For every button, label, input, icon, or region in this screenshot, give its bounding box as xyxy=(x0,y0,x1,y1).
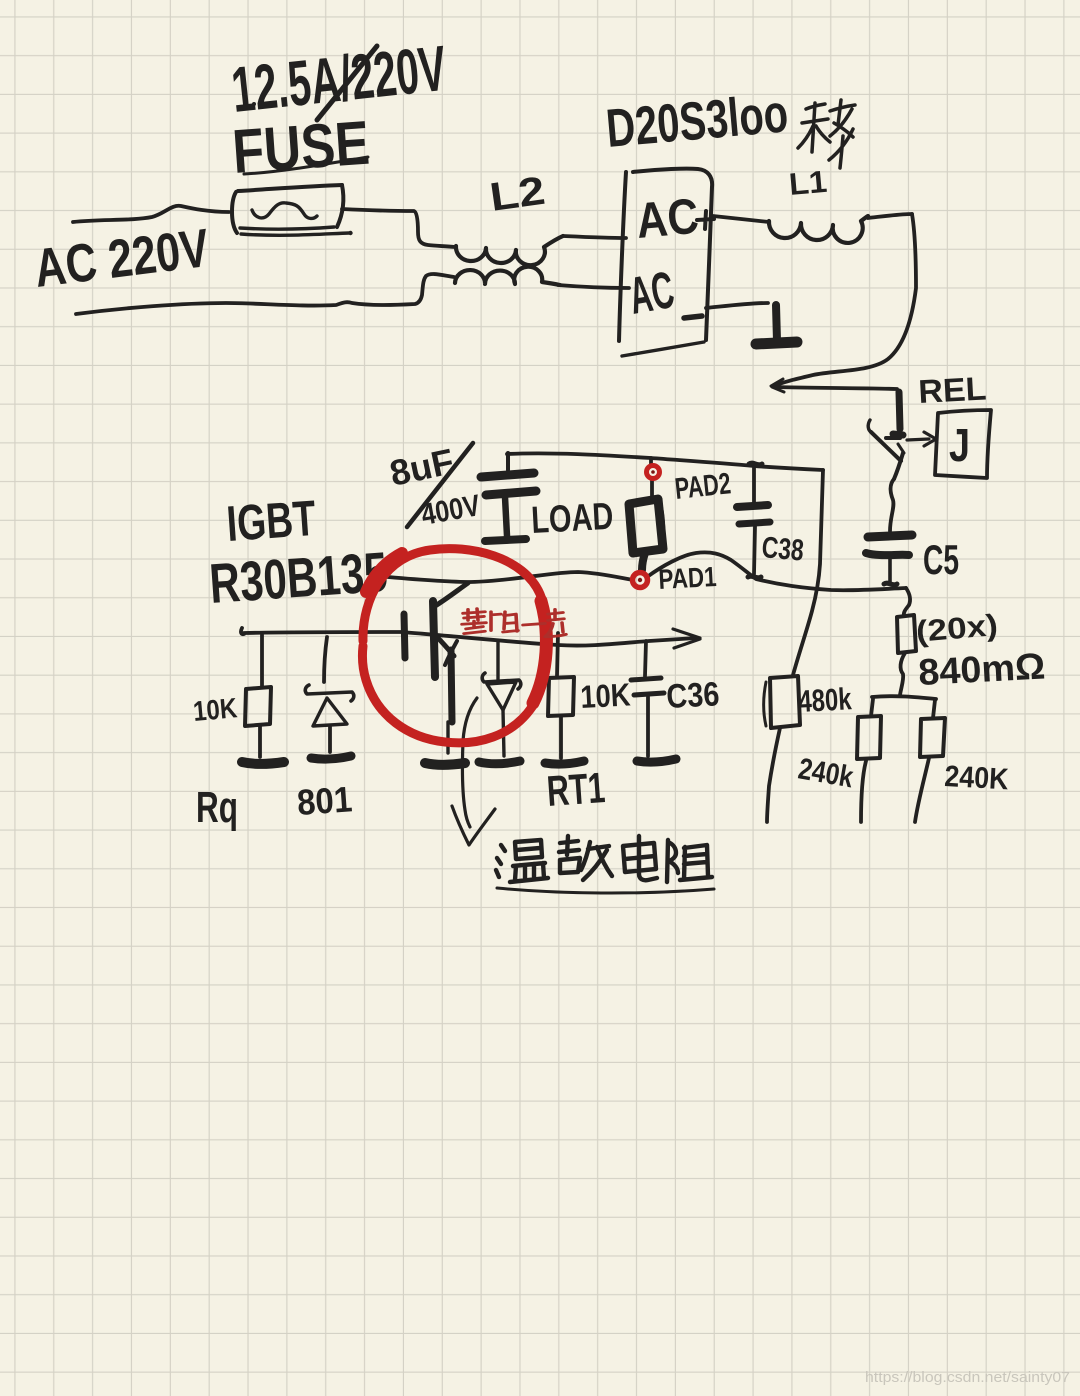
wire L2 top to bridge xyxy=(563,236,626,238)
wire AC line top-left xyxy=(73,206,229,222)
svg-text:LOAD: LOAD xyxy=(530,496,614,542)
fuse F1 xyxy=(232,185,353,235)
svg-text:https://blog.csdn.net/sainty07: https://blog.csdn.net/sainty07 xyxy=(865,1370,1070,1386)
capacitor C36 xyxy=(631,641,676,762)
svg-text:PAD1: PAD1 xyxy=(658,561,718,595)
diode at IGBT emitter xyxy=(479,641,521,764)
wire C5 junction down to 20x resistor xyxy=(904,588,910,616)
hanzi bridge character xyxy=(798,100,855,168)
wire AC+ to L1 xyxy=(713,216,769,222)
main mid wire (PAD1 rail) xyxy=(388,572,633,582)
ground at bridge AC- xyxy=(706,303,797,344)
bridge rectifier D20SB60 box xyxy=(619,169,712,356)
pad PAD2 lead xyxy=(651,458,652,499)
coil pad component (thick rectangle) xyxy=(629,499,663,570)
curved arrow to thermistor note xyxy=(462,698,477,827)
svg-text:RT1: RT1 xyxy=(545,764,606,816)
wire fuse to L2 xyxy=(342,209,455,247)
wire AC line bottom-left xyxy=(76,274,454,314)
svg-text:C36: C36 xyxy=(665,675,720,716)
relay fixed contact xyxy=(899,392,900,429)
svg-text:PAD2: PAD2 xyxy=(673,467,732,506)
svg-text:J: J xyxy=(949,419,970,471)
red circle around IGBT xyxy=(362,549,548,743)
gate wire with arrow xyxy=(241,628,244,634)
svg-text:AC: AC xyxy=(634,188,701,249)
svg-text:R30B135: R30B135 xyxy=(207,540,389,615)
resistor (20x) 840mOhm xyxy=(897,615,916,695)
svg-text:10K: 10K xyxy=(579,676,631,715)
svg-text:FUSE: FUSE xyxy=(230,109,371,187)
transistor IGBT xyxy=(404,583,468,765)
resistor 480K xyxy=(764,676,800,822)
resistor 240K middle xyxy=(857,699,881,822)
wire bar joining 240K pair xyxy=(872,696,936,699)
svg-text:801: 801 xyxy=(296,778,354,823)
red circle overlap stroke xyxy=(366,553,402,592)
wire down from L1 and S-curve to relay line xyxy=(774,214,916,386)
svg-text:L2: L2 xyxy=(487,169,548,220)
wire top rail down to 480K xyxy=(793,470,823,675)
svg-text:Rq: Rq xyxy=(196,783,238,832)
main top wire (load top rail) xyxy=(507,453,823,470)
svg-text:240K: 240K xyxy=(944,760,1010,796)
svg-text:C38: C38 xyxy=(760,531,805,568)
wire switch to C5 xyxy=(890,479,894,531)
capacitor 8uF load cap xyxy=(481,453,536,541)
svg-text:IGBT: IGBT xyxy=(225,490,318,552)
arrow to relay coil J xyxy=(907,439,929,440)
capacitor C38 xyxy=(737,463,770,578)
arrowhead at relay line left xyxy=(771,379,784,392)
red node PAD1 xyxy=(633,573,648,588)
relay REL box xyxy=(935,410,991,478)
wire L2 bottom to bridge xyxy=(558,285,629,288)
resistor Rq 10K xyxy=(242,635,284,764)
wire relay line horizontal xyxy=(774,387,897,389)
thermistor RT1 resistor xyxy=(545,633,584,764)
capacitor C5 xyxy=(866,535,912,585)
inductor L2 winding bottom xyxy=(455,267,560,285)
inductor L2 winding top xyxy=(456,236,563,265)
resistor 240K right xyxy=(915,700,945,822)
zener diode 801 xyxy=(305,637,354,759)
red node PAD2 xyxy=(647,466,660,479)
svg-text:10K: 10K xyxy=(192,692,239,727)
red hanzi note 紧贴一起 xyxy=(462,609,566,637)
relay switch arm xyxy=(868,420,871,432)
svg-text:840mΩ: 840mΩ xyxy=(917,645,1046,693)
wire L1 to corner xyxy=(868,214,912,218)
inductor L1 winding xyxy=(769,216,868,243)
svg-text:L1: L1 xyxy=(788,164,829,202)
hanzi thermistor note 温敏电阻 with underline xyxy=(496,836,714,893)
svg-text:C5: C5 xyxy=(923,536,959,583)
svg-text:REL: REL xyxy=(917,369,987,410)
svg-text:480k: 480k xyxy=(798,681,853,719)
